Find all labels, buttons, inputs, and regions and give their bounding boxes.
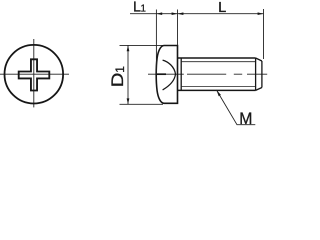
- head outline circle (front view): [5, 45, 64, 104]
- svg-text:L: L: [218, 0, 226, 16]
- extension line B (under head): [177, 10, 179, 46]
- label D1: [107, 66, 127, 88]
- screw axis centerline (side view): [148, 73, 267, 75]
- front view vertical centerline: [33, 39, 35, 107]
- chamfer bottom diagonal: [256, 88, 262, 91]
- dimension L1 arrow left: [156, 12, 162, 15]
- svg-text:D: D: [107, 72, 126, 87]
- thread root line top: [181, 61, 255, 63]
- leader arrowhead: [217, 90, 221, 96]
- shank top edge: [178, 57, 256, 59]
- front view horizontal centerline: [0, 73, 69, 75]
- svg-text:1: 1: [113, 66, 127, 73]
- chamfer start vertical line: [255, 58, 257, 90]
- dimension D1 extension line bottom: [120, 103, 164, 105]
- dimension L1 arrow right: [172, 12, 178, 15]
- extension line C (screw tip): [263, 9, 265, 59]
- dimension D1 arrow down: [127, 98, 130, 104]
- leader line for M: [217, 90, 256, 125]
- thread start vertical line: [180, 58, 182, 90]
- chamfer top diagonal: [256, 58, 262, 61]
- dimension D1 extension line top: [120, 44, 163, 46]
- top dimension line: [130, 13, 264, 15]
- extension line A (head front): [155, 10, 157, 75]
- pan head outline (side view): [156, 46, 177, 104]
- phillips recess slot tick (side view): [156, 73, 166, 75]
- phillips recess chevron (side view): [163, 60, 176, 90]
- dimension L arrow left: [178, 12, 184, 15]
- dimension L arrow right: [258, 12, 264, 15]
- dimension D1 line: [127, 45, 129, 104]
- thread root line bottom: [181, 86, 255, 88]
- shank bottom edge: [178, 89, 256, 91]
- phillips recess cross (front view): [19, 59, 50, 90]
- screw tip end face: [261, 61, 263, 88]
- svg-text:M: M: [239, 109, 252, 128]
- dimension D1 arrow up: [127, 45, 130, 51]
